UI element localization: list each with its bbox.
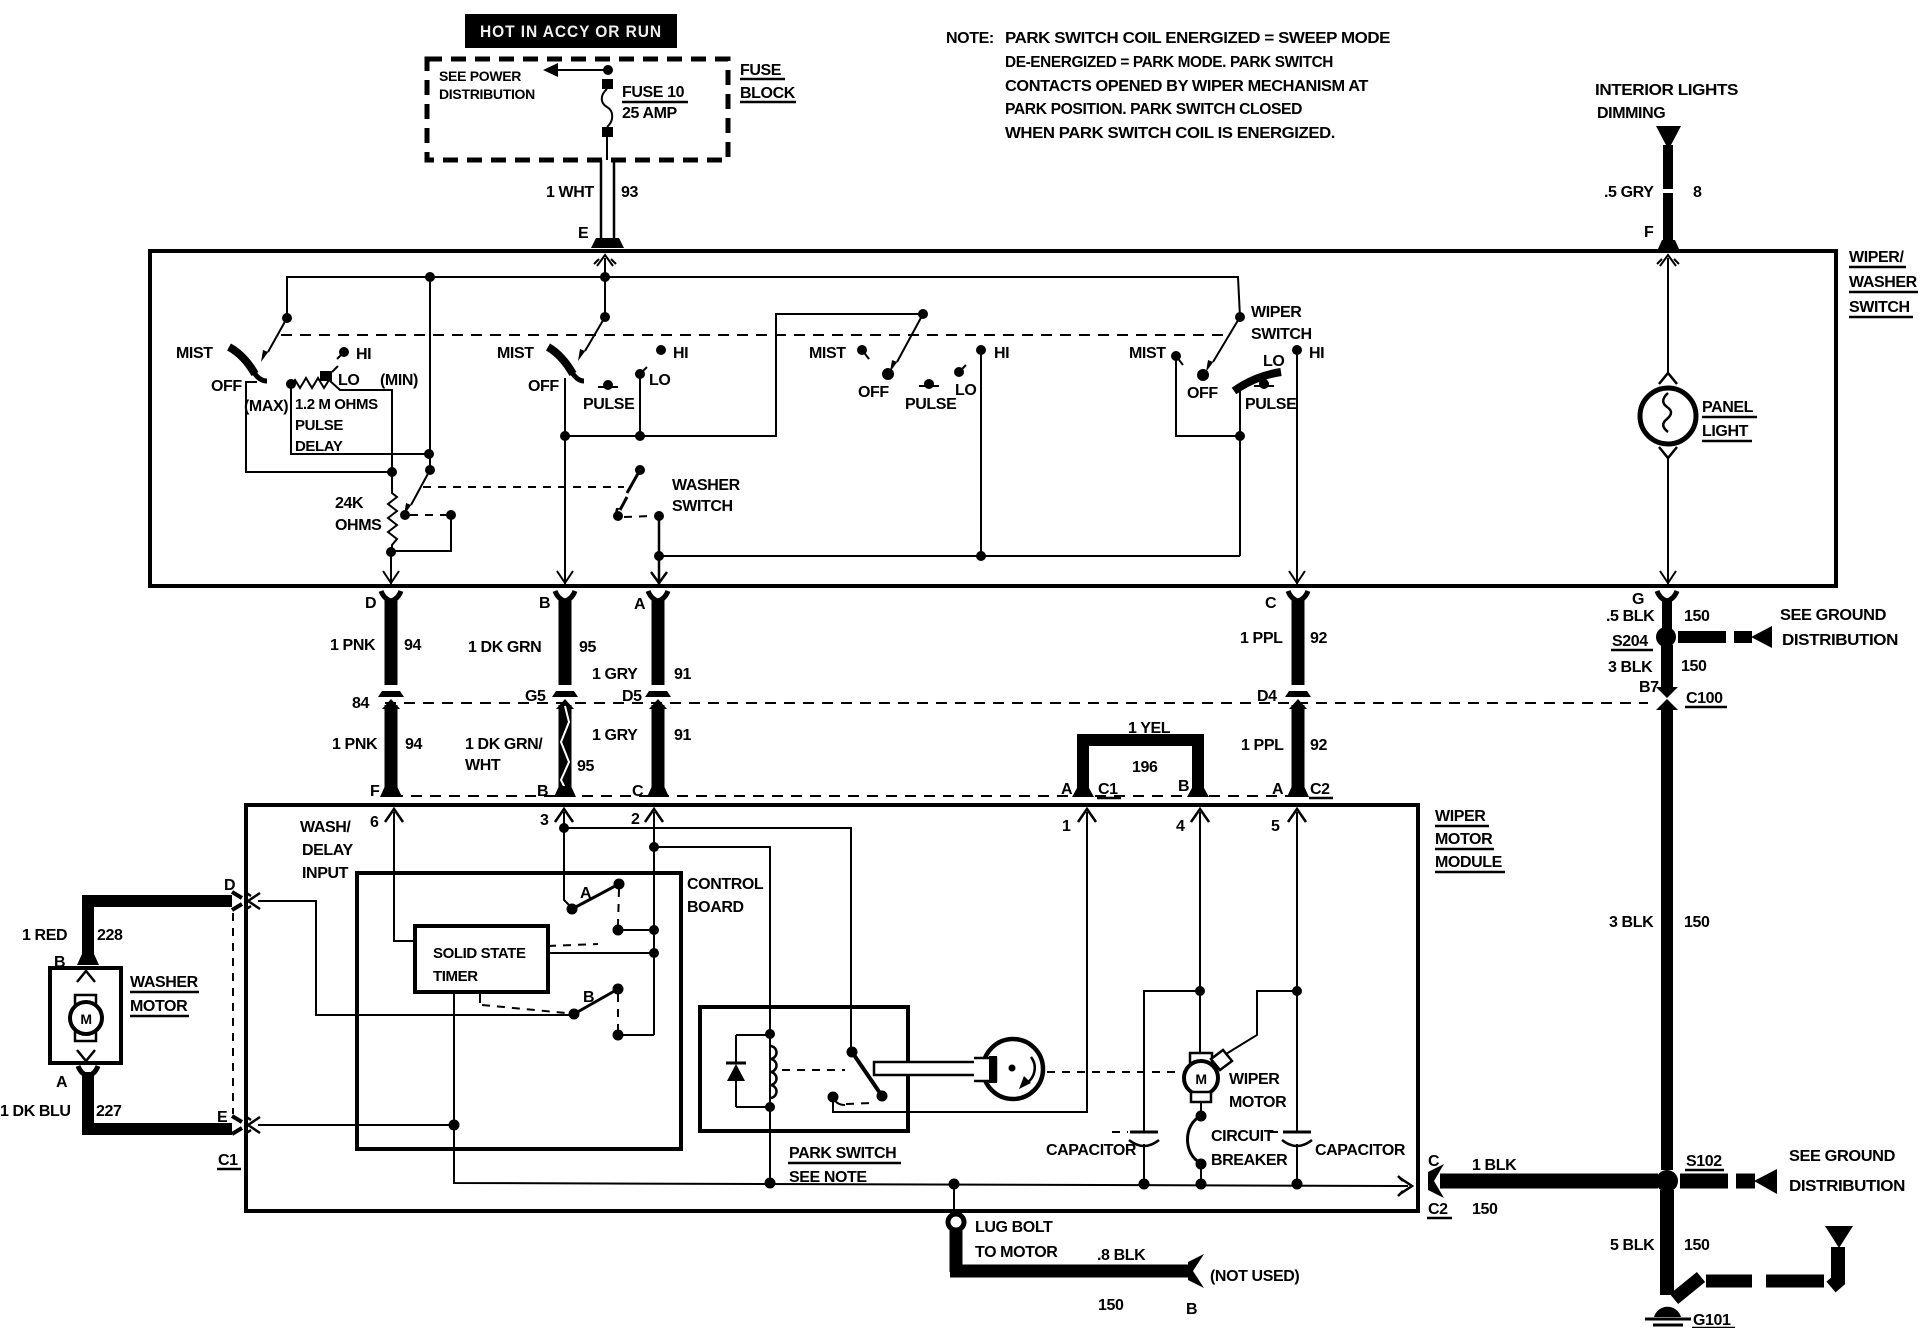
svg-text:FUSE 10: FUSE 10 <box>622 84 685 101</box>
group3 pivot node <box>918 309 928 319</box>
svg-text:MIST: MIST <box>176 345 213 362</box>
svg-text:WASHER: WASHER <box>130 974 199 991</box>
svg-text:TO MOTOR: TO MOTOR <box>975 1244 1058 1261</box>
group3 PULSE contact <box>924 379 934 389</box>
group3 MIST contact <box>857 345 867 355</box>
svg-text:91: 91 <box>674 666 691 683</box>
node cap2 bus <box>1292 1179 1303 1190</box>
svg-text:S102: S102 <box>1686 1153 1722 1170</box>
park switch box <box>700 1007 908 1131</box>
svg-text:MIST: MIST <box>1129 345 1166 362</box>
relay contact upper <box>847 1047 858 1058</box>
switch A arm <box>572 884 619 909</box>
wire .5 GRY 8 <box>1663 145 1673 189</box>
relay contact lower <box>828 1092 839 1103</box>
svg-text:A: A <box>1061 781 1073 798</box>
wire group2 LO down <box>639 374 641 436</box>
svg-text:BLOCK: BLOCK <box>740 85 796 102</box>
solid state timer box <box>415 926 548 992</box>
svg-text:DELAY: DELAY <box>295 438 343 455</box>
svg-text:SWITCH: SWITCH <box>1251 326 1312 343</box>
svg-text:150: 150 <box>1098 1297 1124 1314</box>
switch B dashed drive <box>482 1005 566 1013</box>
wire 1 PNK 94 lower <box>385 705 398 788</box>
panel light circuit wire top <box>1667 266 1669 373</box>
svg-text:93: 93 <box>621 184 638 201</box>
actuator bar <box>874 1062 990 1075</box>
svg-text:C1: C1 <box>1098 781 1118 798</box>
svg-text:D4: D4 <box>1257 688 1277 705</box>
timer drive stub <box>479 992 481 1003</box>
pin 5 <box>1288 809 1306 822</box>
node hi bus <box>976 551 986 561</box>
svg-text:B: B <box>539 595 550 612</box>
svg-text:8: 8 <box>1693 184 1702 201</box>
switch A lower contact <box>613 925 624 936</box>
svg-text:1 PNK: 1 PNK <box>332 736 378 753</box>
svg-text:3 BLK: 3 BLK <box>1609 914 1654 931</box>
svg-text:LO: LO <box>1263 353 1284 370</box>
svg-text:WASHER: WASHER <box>1849 274 1918 291</box>
svg-text:1 RED: 1 RED <box>22 927 67 944</box>
node washer bus <box>654 551 664 561</box>
node g2 lo bus <box>635 431 645 441</box>
wire OFF pivot down and right <box>246 382 392 472</box>
svg-text:C2: C2 <box>1310 781 1330 798</box>
svg-text:196: 196 <box>1132 759 1158 776</box>
svg-text:M: M <box>1195 1071 1206 1087</box>
wire D input <box>258 901 574 1015</box>
svg-text:D5: D5 <box>622 688 642 705</box>
pin 6 <box>385 809 403 822</box>
svg-text:MIST: MIST <box>497 345 534 362</box>
svg-text:CONTROL: CONTROL <box>687 876 764 893</box>
svg-text:5: 5 <box>1271 818 1280 835</box>
wire diode bottom <box>736 1106 770 1108</box>
svg-text:WASH/: WASH/ <box>300 819 351 836</box>
motor wiper M <box>1190 1053 1212 1063</box>
svg-text:PULSE: PULSE <box>905 396 957 413</box>
svg-text:HI: HI <box>1309 345 1324 362</box>
svg-text:C: C <box>632 783 644 800</box>
dashed washer link <box>624 516 652 517</box>
ground G101 <box>1654 1307 1681 1317</box>
wire main vertical group1 <box>429 277 431 470</box>
svg-text:CAPACITOR: CAPACITOR <box>1046 1142 1137 1159</box>
washer switch pivot <box>635 465 645 475</box>
svg-text:1 PNK: 1 PNK <box>330 637 376 654</box>
group1 MIST lever <box>229 347 255 374</box>
node min tap <box>424 449 434 459</box>
washer switch arm <box>627 470 640 493</box>
dashed connector C1 edge <box>232 913 234 1114</box>
capacitor C2 right <box>1296 991 1298 1131</box>
svg-text:228: 228 <box>97 927 123 944</box>
wire relay to pin1 <box>833 812 1087 1112</box>
group1 wiper arm <box>268 318 287 352</box>
wire hi bus across <box>659 555 1240 557</box>
svg-text:1 GRY: 1 GRY <box>592 727 638 744</box>
wire group4 HI down to C arrow <box>1296 350 1298 584</box>
group1 HI contact <box>339 347 349 357</box>
switch A dashed link <box>618 889 619 925</box>
svg-text:F: F <box>1644 224 1654 241</box>
svg-text:.5 BLK: .5 BLK <box>1606 608 1655 625</box>
svg-text:1: 1 <box>1062 818 1071 835</box>
washer motor brushes <box>75 995 96 1004</box>
wire coil to bus <box>769 1107 771 1183</box>
svg-text:LO: LO <box>955 382 976 399</box>
svg-text:LIGHT: LIGHT <box>1702 423 1749 440</box>
group2 pivot node <box>600 312 610 322</box>
wire 1 GRY 91 upper <box>648 591 668 601</box>
svg-text:DISTRIBUTION: DISTRIBUTION <box>1782 632 1898 649</box>
svg-text:2: 2 <box>631 811 640 828</box>
pin 3 <box>555 809 573 822</box>
node pin2 coil tap <box>649 842 659 852</box>
svg-text:150: 150 <box>1684 914 1710 931</box>
svg-text:LO: LO <box>649 372 670 389</box>
svg-text:PULSE: PULSE <box>583 396 635 413</box>
node g2 pivot bus <box>560 431 570 441</box>
node coil bus <box>765 1178 776 1189</box>
svg-text:(NOT USED): (NOT USED) <box>1210 1268 1299 1285</box>
wire E input <box>258 1124 454 1126</box>
svg-text:A: A <box>56 1074 68 1091</box>
fuse block dashed box <box>427 59 728 160</box>
node resistor bottom <box>386 547 396 557</box>
connector arrow E into switch <box>594 255 616 266</box>
svg-text:BREAKER: BREAKER <box>1211 1152 1288 1169</box>
svg-text:HI: HI <box>356 346 371 363</box>
group2 LO contact <box>635 369 645 379</box>
wire A feed down with arrow <box>658 556 661 584</box>
svg-text:150: 150 <box>1472 1201 1498 1218</box>
dashed cam to motor <box>1047 1071 1182 1073</box>
svg-text:150: 150 <box>1684 608 1710 625</box>
wire bypass down to resistor bottom <box>391 515 451 551</box>
svg-text:PARK SWITCH: PARK SWITCH <box>789 1145 896 1162</box>
svg-text:B: B <box>1178 778 1189 795</box>
wire MAX down and right <box>291 384 428 454</box>
svg-text:4: 4 <box>1176 818 1185 835</box>
group4 pivot node <box>1235 312 1245 322</box>
svg-text:S204: S204 <box>1612 633 1648 650</box>
svg-text:C100: C100 <box>1686 690 1723 707</box>
circuit breaker CB <box>1200 1102 1202 1113</box>
svg-text:C2: C2 <box>1428 1201 1448 1218</box>
svg-text:LUG BOLT: LUG BOLT <box>975 1219 1053 1236</box>
svg-text:1 BLK: 1 BLK <box>1472 1157 1517 1174</box>
svg-text:1 DK BLU: 1 DK BLU <box>0 1103 71 1120</box>
svg-text:LO: LO <box>338 372 359 389</box>
svg-text:WASHER: WASHER <box>672 477 741 494</box>
wire: inner feed bus <box>287 277 1240 318</box>
node: fuse top junction <box>603 65 613 75</box>
connector C2 fork <box>1428 1164 1444 1198</box>
svg-text:D: D <box>365 595 376 612</box>
svg-text:INPUT: INPUT <box>302 865 349 882</box>
svg-text:MIST: MIST <box>809 345 846 362</box>
wire 1 DK GRN 95 upper <box>555 591 575 601</box>
svg-text:94: 94 <box>404 637 421 654</box>
node E entry <box>600 272 610 282</box>
wire 5 BLK 150 <box>1660 1190 1674 1295</box>
node lug bus <box>949 1179 960 1190</box>
svg-text:WHT: WHT <box>465 757 501 774</box>
splice S102 <box>1656 1170 1678 1192</box>
svg-text:1 WHT: 1 WHT <box>546 184 594 201</box>
wire to D with arrow <box>390 552 392 584</box>
wire pin4 to motor <box>1199 812 1201 1053</box>
dashed connector line C100 <box>385 702 1648 704</box>
svg-text:95: 95 <box>577 758 594 775</box>
svg-text:TIMER: TIMER <box>433 968 478 985</box>
jumper 1 YEL 196 <box>1083 740 1198 792</box>
svg-text:(MIN): (MIN) <box>380 372 418 389</box>
node arm2 pivot <box>425 465 435 475</box>
dashed link to bypass <box>410 514 446 516</box>
svg-text:OFF: OFF <box>211 378 242 395</box>
group4 HI contact <box>1292 345 1302 355</box>
washer motor wire 1 RED 228 <box>88 901 232 956</box>
svg-text:OFF: OFF <box>1187 385 1218 402</box>
motor washer M <box>70 1002 102 1034</box>
wire 3 BLK 150 <box>1661 645 1673 687</box>
group2 HI contact <box>656 345 666 355</box>
wire LO to join <box>329 380 392 472</box>
svg-text:WIPER/: WIPER/ <box>1849 249 1904 266</box>
svg-text:G101: G101 <box>1693 1312 1731 1328</box>
svg-text:(MAX): (MAX) <box>244 398 288 415</box>
wire 1 PPL 92 upper <box>1288 591 1308 601</box>
svg-text:B: B <box>537 783 548 800</box>
power label HOT IN ACCY OR RUN <box>465 14 677 48</box>
washer motor box <box>50 968 121 1063</box>
group3 HI contact <box>976 345 986 355</box>
relay arm <box>852 1052 882 1096</box>
group4 LO lever <box>1234 372 1281 391</box>
washer output contact <box>654 511 664 521</box>
group2 PULSE contact <box>603 380 613 390</box>
svg-text:DIMMING: DIMMING <box>1597 105 1665 122</box>
wire group4 mist down <box>1176 356 1240 436</box>
svg-text:3 BLK: 3 BLK <box>1608 659 1653 676</box>
svg-text:OFF: OFF <box>528 378 559 395</box>
control board box <box>357 873 681 1149</box>
svg-text:92: 92 <box>1310 630 1327 647</box>
svg-text:C: C <box>1265 595 1277 612</box>
node cap1 bus <box>1139 1179 1150 1190</box>
svg-text:DELAY: DELAY <box>302 842 353 859</box>
svg-text:227: 227 <box>96 1103 122 1120</box>
ground distribution arrow top <box>1678 631 1726 643</box>
wire 1 PNK 94 upper <box>381 591 401 601</box>
node g4 <box>1235 431 1245 441</box>
ground distribution arrow bottom <box>1680 1174 1728 1189</box>
pin 2 <box>645 809 663 822</box>
group1 lower arm <box>411 470 430 505</box>
resistor R 24K <box>388 472 397 552</box>
wire group4 pivot down <box>1239 389 1241 556</box>
svg-text:1 DK GRN/: 1 DK GRN/ <box>465 736 543 753</box>
svg-text:95: 95 <box>579 639 596 656</box>
splice S204 <box>1656 627 1676 647</box>
wire to power distribution with arrow <box>556 69 608 71</box>
cam wheel <box>983 1039 1043 1099</box>
svg-text:PARK POSITION. PARK SWITCH CL: PARK POSITION. PARK SWITCH CLOSED <box>1005 101 1302 118</box>
svg-text:24K: 24K <box>335 495 364 512</box>
resistor R 1.2M pulse delay <box>286 379 296 389</box>
svg-text:F: F <box>370 783 380 800</box>
svg-text:1 GRY: 1 GRY <box>592 666 638 683</box>
switch B moving contact <box>569 1009 580 1020</box>
wire washer output down <box>658 516 661 556</box>
group4 OFF contact <box>1197 369 1209 381</box>
svg-text:SEE POWER: SEE POWER <box>439 68 521 84</box>
wire coil supply <box>654 847 770 1034</box>
wire bulb to G with arrow <box>1667 458 1669 584</box>
wire pin3 down <box>564 812 570 906</box>
svg-text:A: A <box>1272 781 1284 798</box>
svg-text:PARK SWITCH COIL ENERGIZED =: PARK SWITCH COIL ENERGIZED = SWEEP MODE <box>1005 30 1391 47</box>
svg-text:94: 94 <box>405 736 422 753</box>
lamp panel light <box>1640 388 1696 444</box>
connector chevron above bulb <box>1659 373 1677 384</box>
wire 1 WHT 93 (double line) <box>600 160 603 238</box>
switch B arm <box>574 989 618 1014</box>
svg-text:OFF: OFF <box>858 384 889 401</box>
group4 PULSE contact <box>1259 379 1269 389</box>
group4 MIST contact <box>1171 351 1181 361</box>
wiper motor module box <box>246 805 1418 1211</box>
svg-text:B7: B7 <box>1639 679 1659 696</box>
pin 4 <box>1191 809 1209 822</box>
pin 1 <box>1078 809 1096 822</box>
group4 wiper arm <box>1213 317 1240 362</box>
svg-text:C1: C1 <box>218 1152 238 1169</box>
svg-text:CAPACITOR: CAPACITOR <box>1315 1142 1406 1159</box>
svg-text:6: 6 <box>370 814 379 831</box>
dashed relay link <box>846 1103 872 1104</box>
svg-text:1 YEL: 1 YEL <box>1128 720 1171 737</box>
svg-text:G5: G5 <box>525 688 546 705</box>
wire 1 BLK 150 <box>1440 1174 1658 1189</box>
svg-text:PANEL: PANEL <box>1702 399 1754 416</box>
wire pin2 down <box>653 812 655 1035</box>
svg-text:FUSE: FUSE <box>740 62 782 79</box>
svg-text:PULSE: PULSE <box>1245 396 1297 413</box>
connector arrow F into switch <box>1657 255 1679 266</box>
wire 1 DK GRN/WHT 95 lower <box>559 705 572 788</box>
group3 LO contact <box>954 367 964 377</box>
wire B feed down with arrow <box>564 436 566 584</box>
wire 1 PPL 92 lower <box>1292 705 1305 788</box>
svg-text:HI: HI <box>673 345 688 362</box>
group2 MIST lever <box>548 347 573 374</box>
svg-text:SWITCH: SWITCH <box>672 498 733 515</box>
group3 OFF contact <box>882 368 894 380</box>
svg-text:HOT IN ACCY OR RUN: HOT IN ACCY OR RUN <box>480 22 662 41</box>
wire pin3 to relay <box>564 828 851 1050</box>
wire B contact to pin2 <box>618 1034 654 1036</box>
node on feed bus <box>425 272 435 282</box>
diode CR1 <box>735 1035 737 1107</box>
group2 wiper arm <box>585 317 605 351</box>
wire 1 GRY 91 lower <box>652 705 665 788</box>
svg-text:SEE GROUND: SEE GROUND <box>1789 1148 1895 1165</box>
wire group3 HI down <box>980 350 982 556</box>
svg-text:25 AMP: 25 AMP <box>622 105 678 122</box>
svg-text:DE-ENERGIZED = PARK MODE. P: DE-ENERGIZED = PARK MODE. PARK SWITCH <box>1005 54 1333 71</box>
timer output wire <box>548 952 654 954</box>
svg-text:1 PPL: 1 PPL <box>1241 737 1284 754</box>
svg-text:WIPER: WIPER <box>1435 808 1486 825</box>
node pin3 <box>559 823 569 833</box>
svg-text:B: B <box>1186 1301 1197 1318</box>
svg-text:SWITCH: SWITCH <box>1849 299 1910 316</box>
dashed coil link <box>782 1069 845 1071</box>
svg-text:INTERIOR LIGHTS: INTERIOR LIGHTS <box>1595 82 1739 99</box>
dashed branch to other ground <box>1674 1277 1701 1299</box>
wire pin6 to timer <box>394 812 415 941</box>
wire E down <box>604 277 606 317</box>
wire 3 BLK 150 long <box>1661 706 1673 1170</box>
dashed connector line module <box>392 795 1290 797</box>
node E junction <box>449 1120 460 1131</box>
svg-text:OHMS: OHMS <box>335 517 382 534</box>
svg-text:MOTOR: MOTOR <box>1435 831 1493 848</box>
svg-text:150: 150 <box>1681 658 1707 675</box>
svg-text:150: 150 <box>1684 1237 1710 1254</box>
ground symbol triangle <box>1825 1226 1853 1248</box>
svg-text:M: M <box>80 1011 91 1027</box>
fuse F10 symbol <box>602 79 613 89</box>
svg-text:91: 91 <box>674 727 691 744</box>
node breaker bus <box>1196 1179 1207 1190</box>
group1 delay contact <box>400 510 410 520</box>
svg-text:CIRCUIT: CIRCUIT <box>1211 1128 1274 1145</box>
svg-text:BOARD: BOARD <box>687 899 744 916</box>
connector chevron below bulb <box>1659 447 1677 458</box>
interior lights feed triangle <box>1656 126 1681 145</box>
svg-text:A: A <box>634 596 646 613</box>
wire .5 BLK 150 <box>1657 591 1677 601</box>
module ground bus <box>454 1180 1408 1186</box>
wire A contact to pin2 <box>618 929 654 931</box>
wire pin5 down <box>1296 812 1298 991</box>
switch B dashed link <box>617 994 619 1030</box>
svg-text:MODULE: MODULE <box>1435 854 1503 871</box>
washer motor wire 1 DK BLU 227 <box>88 1072 232 1129</box>
svg-text:MOTOR: MOTOR <box>130 998 188 1015</box>
timer ground vertical <box>453 992 455 1180</box>
wire pulse bus to group3 <box>565 314 923 436</box>
timer dashed link <box>548 944 598 946</box>
svg-text:E: E <box>578 225 589 242</box>
wire motor to pin5 <box>1226 991 1297 1054</box>
svg-text:1 PPL: 1 PPL <box>1240 630 1283 647</box>
relay coil L1 <box>769 1034 771 1107</box>
svg-text:SEE GROUND: SEE GROUND <box>1780 607 1886 624</box>
dashed mode line upper <box>281 334 1228 336</box>
group1 pivot node <box>282 313 292 323</box>
svg-text:5 BLK: 5 BLK <box>1610 1237 1655 1254</box>
switch B lower contact <box>613 1030 624 1041</box>
svg-text:WIPER: WIPER <box>1251 304 1302 321</box>
svg-text:92: 92 <box>1310 737 1327 754</box>
svg-text:.5 GRY: .5 GRY <box>1604 184 1654 201</box>
